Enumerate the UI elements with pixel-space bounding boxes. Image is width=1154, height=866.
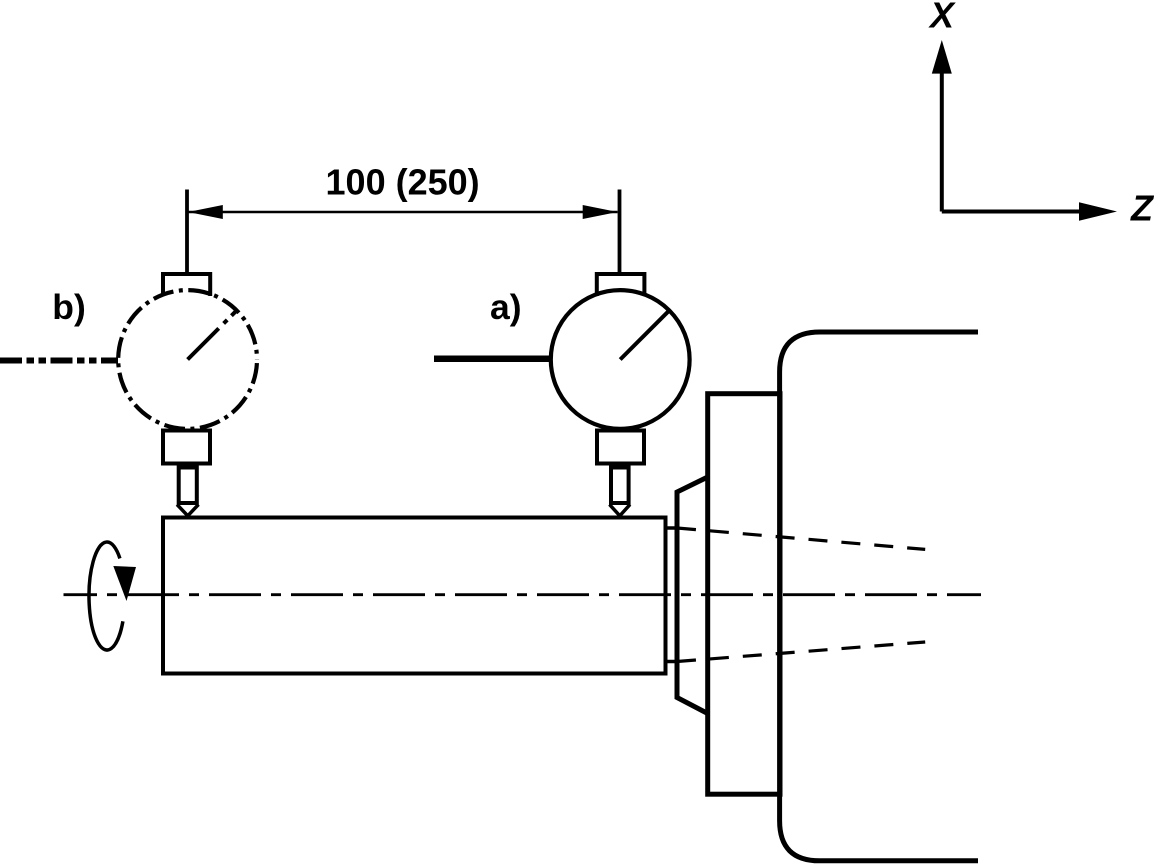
dimension arrowhead right xyxy=(583,205,618,219)
dial indicator a holder arm xyxy=(434,356,549,363)
svg-text:X: X xyxy=(928,0,956,36)
collar top edge xyxy=(664,526,680,530)
dial indicator b body (phantom circle) xyxy=(118,290,257,429)
svg-text:a): a) xyxy=(490,287,522,327)
rotation arrowhead xyxy=(113,566,136,601)
headstock body xyxy=(780,332,978,861)
dimension extension line right xyxy=(618,190,622,275)
svg-text:Z: Z xyxy=(1130,188,1154,229)
dial indicator a plunger xyxy=(611,468,629,504)
Z axis arrowhead xyxy=(1079,202,1117,220)
dimension arrowhead left xyxy=(188,205,223,219)
dial indicator a body xyxy=(551,290,690,429)
spindle flange xyxy=(708,394,780,795)
dimension extension line left xyxy=(185,190,189,275)
dimension line xyxy=(188,211,618,214)
test mandrel cylinder xyxy=(163,518,666,674)
dial indicator b needle (phantom) xyxy=(188,310,237,359)
dial indicator a lower stem xyxy=(597,431,644,464)
dial indicator b top clamp xyxy=(163,274,210,296)
dial indicator a needle xyxy=(620,310,669,359)
coordinate axis X arrow xyxy=(942,68,1082,212)
centre line xyxy=(64,593,982,596)
X axis arrowhead xyxy=(932,40,952,74)
rotation arrow ellipse arc xyxy=(89,542,123,650)
dial indicator b plunger xyxy=(179,468,197,504)
dial indicator b lower stem xyxy=(163,431,210,464)
svg-text:b): b) xyxy=(52,287,86,327)
hidden taper line upper xyxy=(677,528,925,549)
svg-text:100 (250): 100 (250) xyxy=(326,162,480,203)
dial indicator a top clamp xyxy=(597,274,645,296)
chuck adapter xyxy=(677,477,708,714)
collar bottom edge xyxy=(664,660,680,664)
hidden taper line lower xyxy=(677,642,925,662)
dial indicator a contact tip xyxy=(610,505,631,516)
dial indicator b contact tip xyxy=(177,505,199,516)
dial indicator b holder arm (phantom line) xyxy=(0,358,118,364)
